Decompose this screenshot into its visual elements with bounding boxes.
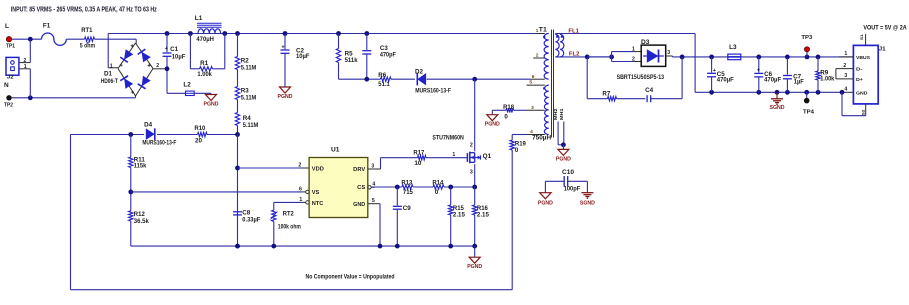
svg-text:C8: C8 [242, 210, 250, 217]
svg-text:5.11M: 5.11M [241, 94, 256, 101]
svg-text:0: 0 [515, 147, 519, 154]
svg-text:+: + [713, 68, 716, 74]
svg-text:5.11M: 5.11M [241, 64, 256, 71]
svg-text:5 ohm: 5 ohm [80, 42, 96, 49]
svg-text:S2: S2 [861, 110, 865, 116]
svg-text:PGND: PGND [204, 102, 219, 108]
svg-text:1: 1 [110, 64, 113, 70]
svg-text:750µH: 750µH [532, 134, 552, 141]
svg-text:L2: L2 [183, 82, 191, 89]
svg-text:36.5k: 36.5k [134, 218, 150, 225]
svg-text:51.1: 51.1 [378, 81, 390, 88]
svg-text:MURS160-13-F: MURS160-13-F [415, 88, 451, 95]
svg-text:2: 2 [843, 63, 846, 69]
svg-text:R7: R7 [602, 91, 610, 98]
svg-text:R13: R13 [401, 180, 412, 187]
svg-text:511k: 511k [345, 57, 359, 64]
svg-text:1: 1 [844, 51, 847, 57]
svg-text:10µF: 10µF [172, 53, 186, 60]
svg-text:PGND: PGND [485, 122, 500, 128]
svg-text:D1: D1 [104, 70, 112, 77]
svg-text:+: + [165, 46, 168, 52]
svg-text:RT2: RT2 [283, 211, 294, 218]
svg-text:TP2: TP2 [4, 102, 13, 108]
svg-text:R17: R17 [413, 150, 424, 157]
svg-text:0: 0 [504, 113, 508, 120]
svg-text:TP3: TP3 [801, 35, 812, 41]
svg-text:3: 3 [371, 163, 374, 169]
svg-text:0: 0 [435, 189, 439, 196]
svg-text:PGND: PGND [467, 264, 482, 270]
svg-text:2: 2 [470, 143, 473, 149]
svg-text:No Component Value = Unpopulat: No Component Value = Unpopulated [306, 273, 395, 280]
svg-text:R1: R1 [200, 60, 208, 67]
svg-text:D4: D4 [144, 122, 152, 129]
svg-text:J1: J1 [879, 46, 886, 52]
svg-text:TP4: TP4 [803, 109, 815, 115]
svg-text:VOUT = 5V @ 2A: VOUT = 5V @ 2A [863, 24, 907, 31]
svg-text:2: 2 [156, 63, 159, 69]
svg-text:470µF: 470µF [764, 76, 781, 83]
svg-text:R2: R2 [241, 57, 249, 64]
svg-text:D2: D2 [415, 69, 423, 76]
svg-text:MH2: MH2 [553, 108, 558, 120]
svg-text:2.15: 2.15 [477, 211, 490, 218]
svg-text:3: 3 [531, 105, 534, 111]
svg-text:J2: J2 [7, 75, 14, 81]
svg-text:100pF: 100pF [564, 185, 581, 192]
svg-text:470µF: 470µF [717, 77, 734, 84]
svg-text:3: 3 [470, 170, 473, 176]
svg-text:STU7NM60N: STU7NM60N [432, 134, 464, 141]
svg-text:R10: R10 [194, 125, 205, 132]
svg-text:T1: T1 [539, 27, 548, 34]
svg-text:RT1: RT1 [81, 27, 93, 34]
svg-text:MH1: MH1 [559, 108, 564, 120]
svg-text:1µF: 1µF [794, 79, 804, 86]
svg-text:R14: R14 [432, 180, 443, 187]
svg-text:2: 2 [536, 53, 539, 59]
svg-text:C10: C10 [562, 169, 575, 176]
svg-text:NTC: NTC [312, 201, 324, 207]
svg-text:PGND: PGND [556, 156, 571, 162]
svg-text:R3: R3 [241, 87, 249, 94]
svg-text:715: 715 [403, 189, 414, 196]
svg-text:1: 1 [452, 152, 455, 158]
svg-text:FL1: FL1 [568, 29, 579, 35]
svg-text:VBUS: VBUS [856, 55, 870, 60]
svg-text:C4: C4 [645, 87, 653, 94]
svg-text:INPUT: 85 VRMS - 265 VRMS, 0.: INPUT: 85 VRMS - 265 VRMS, 0.35 A PEAK, … [11, 7, 157, 14]
svg-text:2: 2 [632, 57, 635, 63]
svg-text:SGND: SGND [580, 200, 595, 206]
svg-text:1.00k: 1.00k [197, 71, 212, 78]
svg-text:R6: R6 [378, 72, 386, 79]
svg-text:3: 3 [844, 73, 847, 79]
svg-text:115k: 115k [134, 163, 147, 170]
svg-text:5: 5 [372, 198, 375, 204]
svg-text:R18: R18 [503, 104, 514, 111]
svg-text:L1: L1 [195, 15, 203, 22]
svg-text:470pF: 470pF [380, 51, 396, 58]
svg-text:6: 6 [532, 74, 535, 80]
svg-text:R12: R12 [134, 211, 145, 218]
svg-text:GND: GND [856, 91, 868, 96]
svg-text:4: 4 [844, 87, 847, 93]
svg-text:20: 20 [195, 137, 203, 144]
svg-text:10µF: 10µF [296, 53, 310, 60]
svg-text:10: 10 [414, 160, 422, 167]
svg-text:VDD: VDD [312, 167, 324, 173]
svg-text:C9: C9 [403, 205, 411, 212]
svg-text:5: 5 [529, 80, 532, 86]
svg-text:+: + [757, 68, 760, 74]
svg-text:470µH: 470µH [196, 36, 214, 43]
svg-text:F1: F1 [43, 22, 51, 29]
svg-text:N: N [4, 82, 9, 89]
svg-text:L: L [5, 23, 9, 30]
svg-text:S1: S1 [860, 34, 864, 40]
svg-text:C1: C1 [170, 46, 178, 53]
svg-text:100k ohm: 100k ohm [278, 223, 301, 230]
svg-text:Q1: Q1 [483, 153, 492, 160]
svg-text:R4: R4 [243, 115, 251, 122]
svg-text:PGND: PGND [538, 200, 553, 206]
svg-text:6: 6 [299, 187, 302, 193]
svg-text:0.33µF: 0.33µF [242, 217, 260, 224]
svg-text:D+: D+ [856, 77, 863, 82]
svg-text:1: 1 [632, 47, 635, 53]
svg-text:5.11M: 5.11M [243, 122, 258, 129]
svg-text:2: 2 [298, 162, 301, 168]
svg-text:SBRT15U50SP5-13: SBRT15U50SP5-13 [617, 74, 665, 81]
svg-text:FL2: FL2 [569, 52, 580, 58]
svg-text:SGND: SGND [770, 105, 785, 111]
svg-text:MURS160-13-F: MURS160-13-F [142, 139, 176, 146]
svg-text:DRV: DRV [353, 167, 366, 173]
svg-text:D3: D3 [641, 39, 650, 46]
svg-text:+: + [281, 45, 284, 51]
svg-text:VS: VS [312, 190, 320, 196]
svg-text:GND: GND [353, 202, 365, 208]
svg-text:PGND: PGND [278, 94, 293, 100]
svg-text:1: 1 [24, 64, 27, 70]
svg-text:3: 3 [667, 50, 670, 56]
svg-text:HD06-T: HD06-T [101, 78, 118, 85]
svg-text:D-: D- [856, 67, 863, 72]
svg-text:TP1: TP1 [6, 44, 15, 50]
svg-text:CS: CS [357, 185, 366, 191]
svg-text:2.15: 2.15 [453, 211, 466, 218]
svg-text:2: 2 [23, 58, 26, 64]
svg-text:1.00k: 1.00k [820, 75, 835, 82]
svg-text:1: 1 [299, 197, 302, 203]
svg-text:L3: L3 [729, 44, 737, 51]
svg-text:U1: U1 [331, 147, 340, 154]
